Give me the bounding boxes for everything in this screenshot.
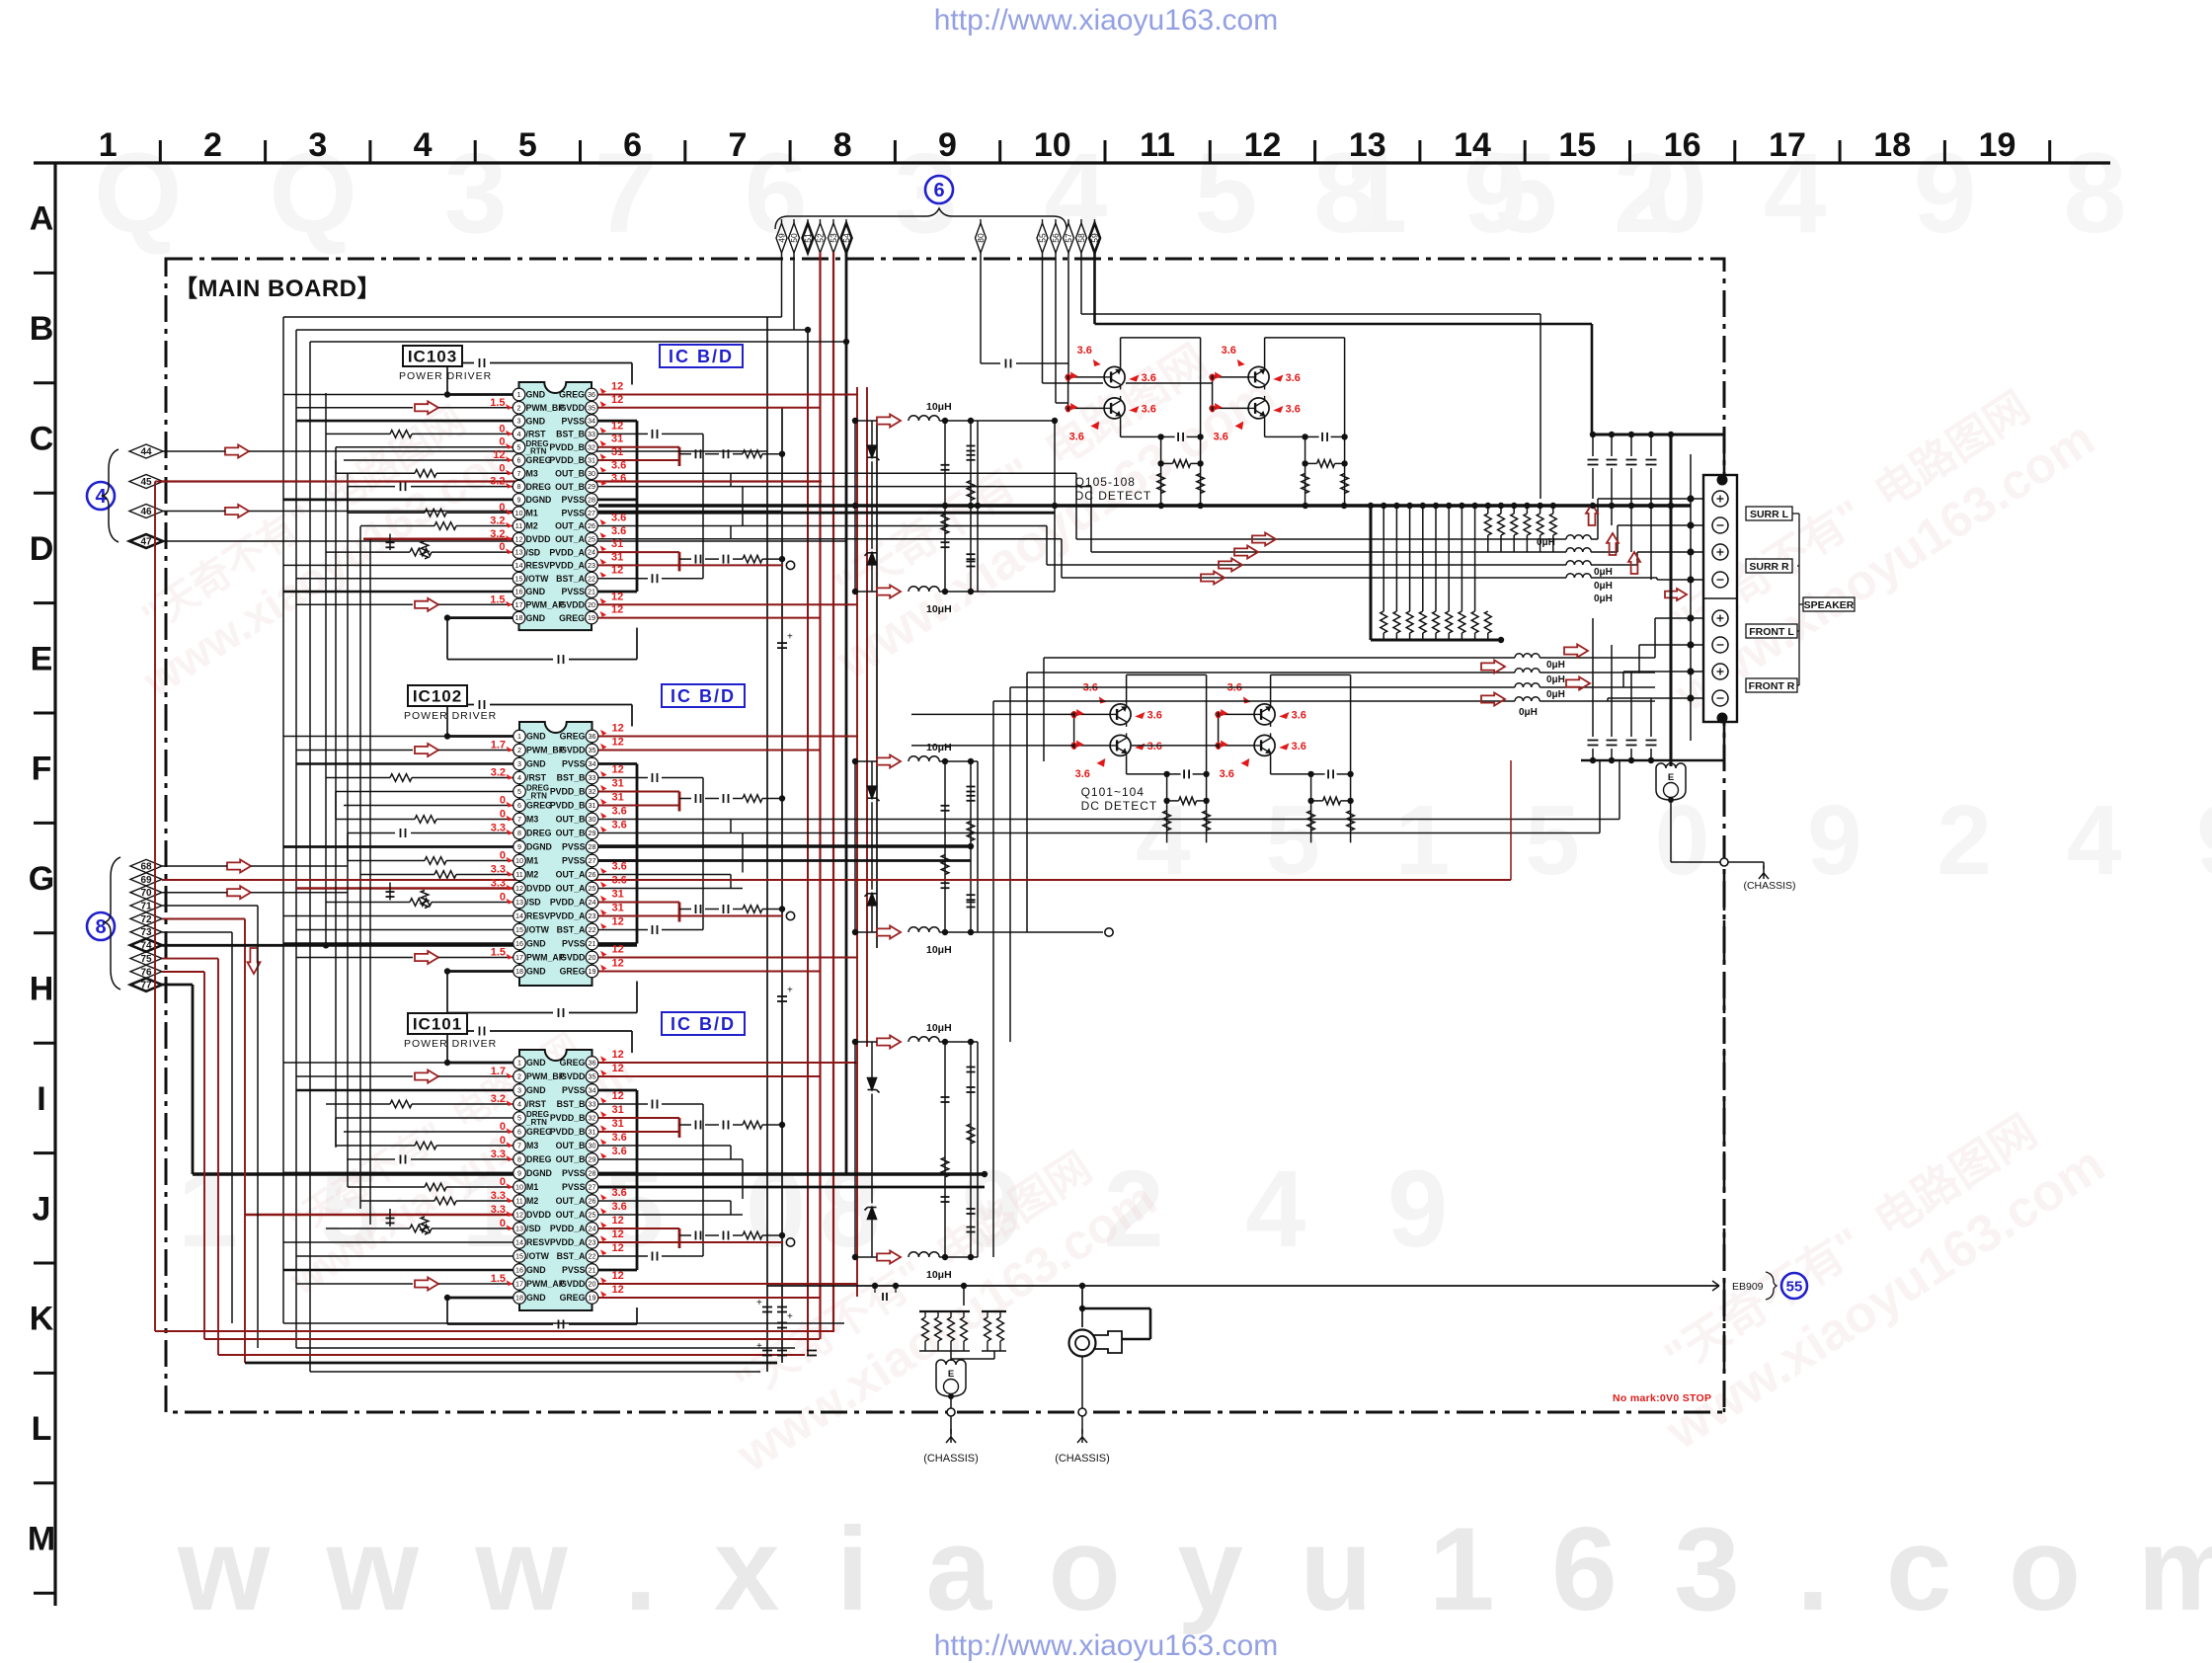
svg-text:23: 23	[588, 561, 595, 570]
svg-text:G: G	[29, 860, 54, 898]
svg-text:IC102: IC102	[413, 687, 462, 706]
svg-text:3.6: 3.6	[1147, 709, 1162, 721]
svg-text:2: 2	[517, 403, 521, 412]
svg-text:0: 0	[500, 850, 506, 862]
svg-text:0: 0	[1216, 709, 1222, 721]
svg-text:http://www.xiaoyu163.com: http://www.xiaoyu163.com	[934, 1629, 1279, 1662]
svg-text:34: 34	[589, 759, 596, 768]
svg-text:3: 3	[517, 417, 521, 426]
svg-text:47: 47	[140, 537, 152, 548]
svg-text:1.5: 1.5	[491, 1273, 506, 1285]
svg-text:16: 16	[1664, 126, 1701, 164]
svg-text:15: 15	[1558, 126, 1596, 164]
svg-text:12: 12	[612, 1284, 624, 1296]
svg-text:20: 20	[589, 1280, 596, 1289]
svg-text:27: 27	[589, 856, 596, 865]
svg-text:51: 51	[803, 233, 813, 243]
svg-text:PVDD_B: PVDD_B	[549, 442, 585, 452]
svg-text:POWER DRIVER: POWER DRIVER	[404, 1038, 497, 1050]
svg-text:SPEAKER: SPEAKER	[1804, 599, 1855, 611]
svg-text:26: 26	[589, 1197, 596, 1206]
svg-text:No mark:0V0 STOP: No mark:0V0 STOP	[1613, 1392, 1711, 1404]
svg-text:12: 12	[493, 449, 505, 461]
svg-text:OUT_B: OUT_B	[556, 1141, 586, 1150]
svg-text:0: 0	[500, 795, 506, 807]
svg-text:19: 19	[589, 967, 596, 976]
svg-text:36: 36	[589, 732, 596, 741]
svg-text:30: 30	[589, 1142, 596, 1150]
svg-text:OUT_B: OUT_B	[556, 829, 586, 838]
svg-text:GND: GND	[526, 587, 546, 596]
svg-text:0μH: 0μH	[1594, 594, 1613, 604]
svg-text:PVSS: PVSS	[562, 1265, 586, 1275]
svg-text:10: 10	[515, 509, 523, 517]
svg-text:1.7: 1.7	[491, 1066, 506, 1077]
svg-text:57: 57	[1064, 233, 1073, 243]
svg-text:34: 34	[588, 417, 595, 426]
svg-text:69: 69	[140, 875, 152, 886]
svg-text:I: I	[37, 1080, 45, 1118]
svg-text:1.5: 1.5	[490, 594, 505, 605]
svg-text:GND: GND	[526, 390, 546, 400]
svg-text:31: 31	[612, 792, 624, 804]
svg-text:12: 12	[612, 1242, 624, 1254]
svg-text:GREG: GREG	[526, 801, 552, 811]
svg-text:OUT_B: OUT_B	[555, 482, 585, 492]
svg-text:23: 23	[589, 911, 596, 920]
svg-text:3.6: 3.6	[612, 820, 627, 831]
svg-text:4: 4	[517, 773, 521, 782]
svg-text:3.6: 3.6	[1286, 372, 1301, 384]
svg-text:30: 30	[588, 469, 595, 478]
svg-text:20: 20	[589, 953, 596, 962]
svg-text:55: 55	[1038, 233, 1048, 243]
svg-text:31: 31	[611, 538, 623, 550]
svg-text:/RST: /RST	[526, 430, 547, 439]
svg-text:/SD: /SD	[526, 1224, 541, 1233]
svg-text:BST_A: BST_A	[557, 1251, 586, 1261]
svg-text:10μH: 10μH	[926, 1022, 952, 1034]
svg-text:DVDD: DVDD	[526, 534, 551, 544]
svg-text:29: 29	[588, 482, 595, 491]
svg-text:7: 7	[728, 126, 747, 164]
svg-text:31: 31	[588, 456, 595, 465]
svg-text:_RTN: _RTN	[525, 1118, 547, 1127]
svg-text:IC B/D: IC B/D	[669, 347, 734, 366]
svg-text:OUT_B: OUT_B	[556, 815, 586, 825]
svg-text:/RST: /RST	[526, 1099, 547, 1109]
svg-text:33: 33	[589, 1100, 596, 1109]
svg-text:15: 15	[515, 925, 523, 934]
svg-text:/OTW: /OTW	[526, 925, 550, 935]
svg-text:0: 0	[1216, 741, 1222, 752]
svg-text:3.6: 3.6	[1142, 403, 1156, 415]
svg-text:4: 4	[517, 430, 521, 438]
svg-text:18: 18	[515, 1294, 523, 1303]
svg-text:12: 12	[612, 1090, 624, 1102]
svg-text:2: 2	[517, 746, 521, 754]
svg-text:32: 32	[589, 1114, 596, 1123]
svg-text:GREG: GREG	[560, 967, 586, 977]
svg-text:12: 12	[612, 1063, 624, 1074]
svg-text:3.3: 3.3	[491, 864, 506, 876]
svg-text:14: 14	[515, 911, 523, 920]
svg-text:1.7: 1.7	[491, 740, 506, 752]
svg-text:45: 45	[140, 477, 152, 488]
svg-text:13: 13	[515, 548, 523, 557]
svg-text:31: 31	[589, 1128, 596, 1137]
svg-text:15: 15	[515, 1252, 523, 1261]
svg-text:34: 34	[589, 1086, 596, 1095]
svg-text:3.3: 3.3	[491, 878, 506, 890]
svg-text:76: 76	[140, 967, 152, 978]
svg-text:3: 3	[517, 1086, 521, 1095]
svg-text:9 2 4 9: 9 2 4 9	[1807, 785, 2212, 896]
svg-text:1.5: 1.5	[491, 947, 506, 959]
svg-text:3.2: 3.2	[491, 767, 506, 779]
svg-text:(CHASSIS): (CHASSIS)	[923, 1453, 979, 1465]
svg-text:0μH: 0μH	[1537, 537, 1555, 548]
svg-text:27: 27	[589, 1183, 596, 1192]
svg-text:0: 0	[499, 423, 505, 435]
svg-text:3.2: 3.2	[490, 476, 505, 488]
svg-text:3.6: 3.6	[1077, 345, 1092, 356]
svg-text:M3: M3	[526, 1141, 538, 1150]
svg-text:GND: GND	[526, 759, 546, 769]
svg-text:32: 32	[589, 787, 596, 796]
svg-text:3.6: 3.6	[1222, 345, 1236, 356]
svg-text:PVSS: PVSS	[562, 416, 586, 426]
svg-text:9: 9	[938, 126, 957, 164]
svg-text:28: 28	[589, 842, 596, 851]
svg-text:14: 14	[1454, 126, 1491, 164]
svg-text:3.6: 3.6	[612, 861, 627, 873]
svg-text:Q101~104: Q101~104	[1081, 785, 1145, 799]
svg-text:30: 30	[589, 815, 596, 824]
svg-text:PVSS: PVSS	[562, 939, 586, 949]
svg-text:GND: GND	[526, 1085, 546, 1095]
svg-text:/RST: /RST	[526, 773, 547, 783]
svg-text:0: 0	[500, 1176, 506, 1188]
svg-text:10μH: 10μH	[926, 1269, 952, 1281]
svg-text:25: 25	[589, 884, 596, 893]
svg-text:C: C	[30, 421, 54, 458]
svg-text:3.3: 3.3	[491, 823, 506, 834]
svg-text:9: 9	[517, 1169, 521, 1178]
svg-text:DGND: DGND	[526, 842, 552, 852]
svg-text:35: 35	[589, 746, 596, 754]
svg-text:+: +	[756, 1298, 762, 1308]
svg-text:28: 28	[589, 1169, 596, 1178]
svg-text:K: K	[30, 1301, 54, 1338]
svg-text:68: 68	[140, 862, 152, 873]
svg-text:DC DETECT: DC DETECT	[1081, 799, 1158, 813]
svg-text:19: 19	[1979, 126, 2016, 164]
svg-text:RESV: RESV	[526, 1237, 550, 1247]
svg-text:24: 24	[588, 548, 595, 557]
svg-text:35: 35	[589, 1072, 596, 1081]
svg-text:PVDD_A: PVDD_A	[550, 1237, 586, 1247]
svg-text:10μH: 10μH	[926, 742, 952, 753]
svg-text:/SD: /SD	[526, 547, 541, 557]
svg-text:DREG: DREG	[526, 1154, 552, 1164]
svg-text:DVDD: DVDD	[526, 1210, 551, 1220]
svg-text:3.6: 3.6	[612, 875, 627, 887]
svg-text:PVDD_A: PVDD_A	[549, 561, 585, 571]
svg-text:GVDD: GVDD	[560, 1279, 585, 1289]
svg-text:3.6: 3.6	[1147, 741, 1162, 752]
svg-text:12: 12	[611, 381, 623, 393]
svg-text:IC103: IC103	[408, 348, 457, 366]
svg-text:PVDD_B: PVDD_B	[550, 787, 586, 797]
svg-text:0: 0	[499, 436, 505, 448]
svg-text:M1: M1	[526, 1182, 538, 1192]
svg-text:12: 12	[515, 534, 523, 543]
svg-text:F: F	[32, 751, 52, 788]
svg-text:1: 1	[517, 390, 521, 399]
svg-text:GREG: GREG	[560, 1058, 586, 1068]
svg-text:6: 6	[933, 180, 944, 201]
svg-text:31: 31	[612, 1104, 624, 1116]
svg-text:12: 12	[1244, 126, 1282, 164]
svg-text:GND: GND	[526, 732, 546, 742]
svg-text:BST_B: BST_B	[557, 773, 586, 783]
svg-text:31: 31	[612, 903, 624, 914]
svg-text:IC B/D: IC B/D	[671, 1014, 736, 1034]
svg-text:E: E	[1668, 772, 1674, 783]
svg-text:6: 6	[517, 801, 521, 810]
svg-text:PVSS: PVSS	[562, 856, 586, 866]
svg-text:PWM_AP: PWM_AP	[526, 600, 565, 610]
svg-text:DREG: DREG	[526, 482, 552, 492]
svg-text:0μH: 0μH	[1546, 674, 1565, 685]
svg-text:1: 1	[99, 126, 118, 164]
svg-text:PVSS: PVSS	[562, 759, 586, 769]
svg-text:GREG: GREG	[560, 732, 586, 742]
svg-text:PWM_BP: PWM_BP	[526, 746, 565, 755]
svg-text:EB909: EB909	[1732, 1281, 1764, 1293]
svg-text:【MAIN BOARD】: 【MAIN BOARD】	[174, 276, 381, 302]
svg-text:DREG: DREG	[526, 829, 552, 838]
svg-text:3.3: 3.3	[491, 1204, 506, 1216]
svg-text:0: 0	[1066, 372, 1071, 384]
svg-text:A: A	[30, 200, 54, 238]
svg-text:20: 20	[588, 600, 595, 609]
svg-text:PVDD_B: PVDD_B	[550, 1127, 586, 1137]
svg-text:DC DETECT: DC DETECT	[1075, 489, 1152, 503]
svg-text:17: 17	[1769, 126, 1806, 164]
svg-text:8: 8	[517, 829, 521, 837]
svg-text:12: 12	[612, 737, 624, 749]
svg-text:12: 12	[611, 604, 623, 616]
svg-text:/OTW: /OTW	[526, 1251, 550, 1261]
svg-text:PWM_AP: PWM_AP	[526, 953, 565, 963]
svg-text:L: L	[32, 1410, 52, 1448]
svg-text:9: 9	[517, 842, 521, 851]
svg-text:PVDD_B: PVDD_B	[550, 1113, 586, 1123]
svg-text:77: 77	[140, 981, 152, 991]
svg-text:PVSS: PVSS	[562, 1182, 586, 1192]
svg-text:16: 16	[515, 939, 523, 948]
svg-text:31: 31	[612, 778, 624, 790]
svg-text:3.6: 3.6	[1075, 768, 1090, 780]
svg-text:BST_B: BST_B	[556, 430, 585, 439]
svg-text:SURR L: SURR L	[1750, 509, 1789, 520]
svg-text:3.6: 3.6	[1214, 431, 1228, 442]
svg-text:+: +	[787, 986, 793, 996]
svg-text:GND: GND	[526, 416, 546, 426]
svg-text:OUT_A: OUT_A	[556, 1196, 586, 1206]
svg-text:0: 0	[1071, 709, 1077, 721]
svg-text:31: 31	[589, 801, 596, 810]
svg-text:PVDD_A: PVDD_A	[550, 911, 586, 921]
svg-text:26: 26	[588, 521, 595, 530]
svg-text:50: 50	[789, 233, 799, 243]
svg-text:3.6: 3.6	[612, 1132, 627, 1144]
svg-text:PWM_BP: PWM_BP	[526, 1071, 565, 1081]
svg-text:21: 21	[589, 1266, 596, 1275]
svg-text:+: +	[787, 1311, 793, 1322]
svg-text:12: 12	[612, 944, 624, 956]
svg-text:56: 56	[1051, 233, 1061, 243]
svg-text:18: 18	[1873, 126, 1911, 164]
svg-text:33: 33	[588, 430, 595, 438]
svg-text:M1: M1	[526, 856, 538, 866]
svg-text:M2: M2	[526, 521, 538, 531]
svg-text:5: 5	[517, 1114, 521, 1123]
svg-text:74: 74	[140, 941, 152, 952]
svg-text:31: 31	[611, 446, 623, 458]
svg-text:73: 73	[140, 927, 152, 938]
svg-text:24: 24	[589, 898, 596, 907]
svg-text:J: J	[33, 1190, 51, 1227]
svg-text:12: 12	[612, 958, 624, 970]
svg-text:0: 0	[1210, 403, 1216, 415]
svg-text:PVSS: PVSS	[562, 1085, 586, 1095]
svg-text:22: 22	[589, 1252, 596, 1261]
svg-text:1.5: 1.5	[490, 397, 505, 409]
svg-text:3.2: 3.2	[491, 1093, 506, 1105]
svg-text:/OTW: /OTW	[526, 574, 550, 584]
svg-text:PVSS: PVSS	[562, 508, 586, 517]
svg-text:8: 8	[833, 126, 852, 164]
svg-text:M1: M1	[526, 508, 538, 517]
svg-text:3.6: 3.6	[612, 1187, 627, 1199]
svg-text:H: H	[30, 971, 54, 1008]
svg-text:3.3: 3.3	[491, 1148, 506, 1160]
svg-text:80: 80	[976, 233, 986, 243]
svg-text:24: 24	[589, 1225, 596, 1233]
svg-text:E: E	[31, 640, 53, 677]
svg-text:GREG: GREG	[559, 613, 585, 623]
svg-text:10: 10	[1034, 126, 1071, 164]
svg-text:13: 13	[1349, 126, 1386, 164]
svg-text:35: 35	[588, 403, 595, 412]
svg-text:_RTN: _RTN	[525, 447, 547, 456]
svg-text:FRONT R: FRONT R	[1749, 680, 1795, 692]
svg-text:BST_A: BST_A	[556, 574, 585, 584]
svg-text:GVDD: GVDD	[560, 403, 585, 413]
svg-text:7: 7	[517, 815, 521, 824]
svg-text:4: 4	[414, 126, 433, 164]
svg-text:0: 0	[500, 1121, 506, 1133]
svg-text:7: 7	[517, 1142, 521, 1150]
svg-text:22: 22	[589, 925, 596, 934]
svg-text:_RTN: _RTN	[525, 791, 547, 800]
svg-text:PVDD_B: PVDD_B	[549, 455, 585, 465]
svg-text:17: 17	[515, 953, 523, 962]
svg-text:31: 31	[612, 889, 624, 901]
svg-text:7: 7	[517, 469, 521, 478]
svg-text:+: +	[756, 1341, 762, 1352]
svg-text:25: 25	[589, 1211, 596, 1220]
svg-text:8: 8	[517, 482, 521, 491]
svg-text:12: 12	[612, 723, 624, 735]
svg-text:72: 72	[140, 914, 152, 925]
svg-text:58: 58	[1076, 233, 1086, 243]
svg-text:12: 12	[611, 591, 623, 602]
svg-text:10μH: 10μH	[926, 944, 952, 956]
svg-text:17: 17	[515, 600, 523, 609]
svg-text:11: 11	[1140, 126, 1175, 164]
svg-text:w w w . x i a o y u 1 6 3 . c: w w w . x i a o y u 1 6 3 . c o m	[177, 1503, 2212, 1635]
svg-text:PVSS: PVSS	[562, 1168, 586, 1178]
svg-text:22: 22	[588, 574, 595, 583]
svg-text:PVDD_A: PVDD_A	[549, 547, 585, 557]
svg-text:12: 12	[515, 884, 523, 893]
svg-text:70: 70	[140, 888, 152, 899]
svg-text:0: 0	[500, 809, 506, 821]
svg-text:29: 29	[589, 1155, 596, 1164]
svg-text:0μH: 0μH	[1594, 567, 1613, 578]
svg-text:FRONT L: FRONT L	[1749, 626, 1794, 638]
svg-text:PVSS: PVSS	[562, 587, 586, 596]
svg-text:GREG: GREG	[560, 1293, 586, 1303]
svg-text:12: 12	[611, 394, 623, 406]
svg-text:POWER DRIVER: POWER DRIVER	[399, 370, 492, 382]
svg-text:+: +	[787, 632, 793, 643]
svg-text:OUT_A: OUT_A	[556, 870, 586, 880]
svg-text:16: 16	[515, 588, 523, 596]
svg-text:9: 9	[517, 496, 521, 505]
svg-text:8: 8	[517, 1155, 521, 1164]
svg-text:25: 25	[588, 534, 595, 543]
svg-text:3.6: 3.6	[612, 806, 627, 818]
svg-text:3.6: 3.6	[611, 525, 626, 537]
svg-text:0μH: 0μH	[1546, 689, 1565, 700]
svg-text:POWER DRIVER: POWER DRIVER	[404, 710, 497, 722]
svg-text:2: 2	[517, 1072, 521, 1081]
svg-text:0: 0	[499, 502, 505, 514]
svg-text:14: 14	[515, 561, 523, 570]
svg-text:5: 5	[517, 442, 521, 451]
svg-text:GREG: GREG	[559, 390, 585, 400]
svg-text:3.6: 3.6	[1069, 431, 1084, 442]
svg-text:28: 28	[588, 496, 595, 505]
svg-text:PWM_AP: PWM_AP	[526, 1279, 565, 1289]
svg-text:0: 0	[500, 1218, 506, 1229]
svg-text:GND: GND	[526, 1058, 546, 1068]
svg-text:M3: M3	[526, 815, 538, 825]
svg-text:GND: GND	[526, 939, 546, 949]
svg-text:13: 13	[515, 898, 523, 907]
svg-text:0: 0	[499, 541, 505, 553]
svg-text:44: 44	[140, 447, 152, 458]
svg-text:BST_B: BST_B	[557, 1099, 586, 1109]
svg-text:26: 26	[589, 870, 596, 879]
svg-text:3: 3	[308, 126, 327, 164]
svg-text:10: 10	[515, 856, 523, 865]
